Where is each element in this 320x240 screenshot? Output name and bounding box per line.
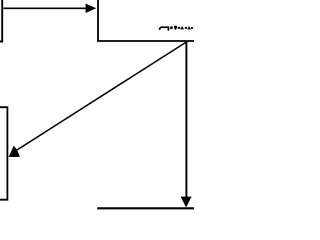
wire: vertical arrow shaft from box B bottom edge down to box D [185,42,187,198]
box C (middle-left, partially off-screen): top edge, right edge, bottom edge [0,107,7,200]
wire: diagonal arrow shaft from box B bottom edge to box C [16,42,186,151]
arrowhead into box C [9,146,20,157]
arrowhead into box D [181,197,192,208]
box D (bottom, partially off-screen): top edge [97,207,194,209]
box A (top-left, partially off-screen): right edge and bottom-right corner [0,0,2,42]
wire: horizontal arrow shaft from box A to box B [3,7,87,9]
tiny illegible label text inside box B [159,26,193,30]
arrowhead into box B [86,4,97,13]
box B (top-right, partially off-screen): left edge and bottom edge [97,0,194,41]
